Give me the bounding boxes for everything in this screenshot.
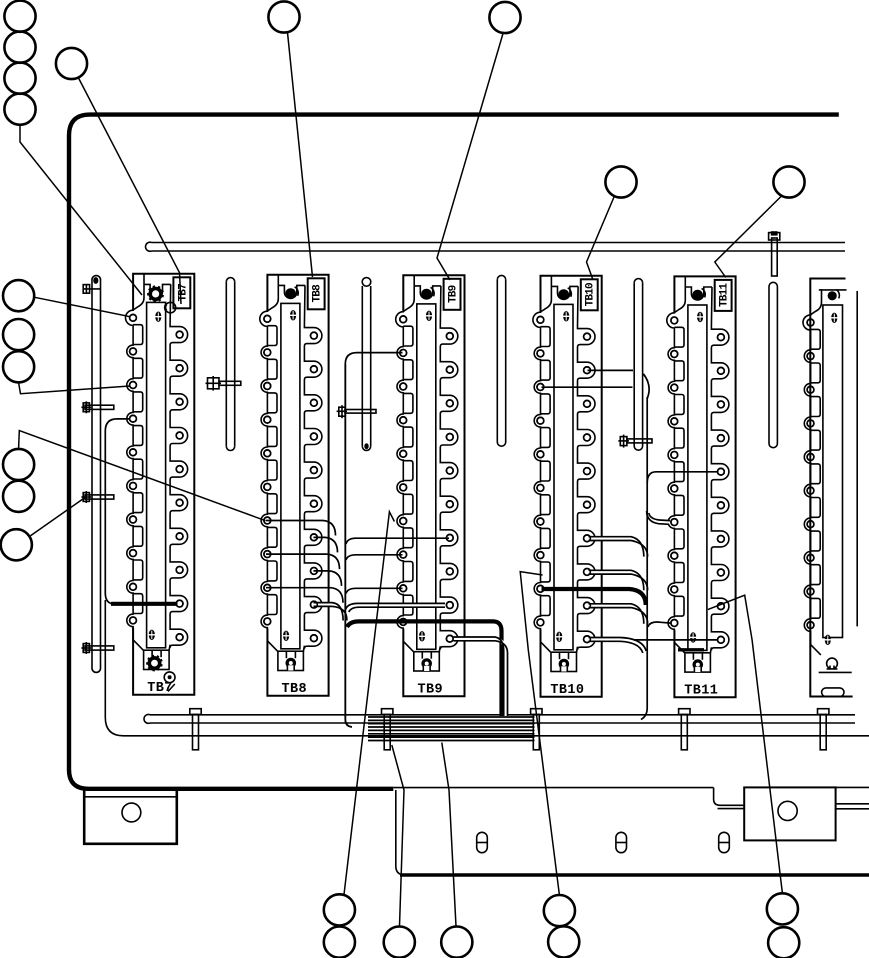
terminal block TB9 small screw on barrier top: [426, 311, 433, 321]
leader from balloon to TB7 left terminal 1: [34, 297, 130, 316]
partial block oval slot: [822, 688, 844, 697]
clamp bolt on upper rod: [769, 231, 780, 276]
terminal block TB10 terminal screw holes: [537, 316, 590, 642]
terminal block TB9 right scalloped contour: [439, 286, 458, 652]
terminal block TB10 strip top edge with screw notch: [550, 276, 552, 287]
panel outer edge (top and left, thick): [69, 115, 839, 789]
leader from bottom balloon pair to TB9 left terminal 7: [344, 512, 394, 895]
svg-text:TB8: TB8: [282, 682, 308, 697]
terminal block TB11 body plate: [674, 276, 735, 697]
leader from top balloon to TB8 label: [288, 33, 313, 278]
leader from balloon to TB11 label: [715, 196, 782, 278]
terminal block TB7 small bolt below top screw: [155, 312, 162, 322]
terminal block TB8 small screw on barrier bottom: [283, 631, 290, 641]
cable bundle: [368, 717, 535, 741]
leader from bottom right balloon pair to TB11 right terminal 9: [708, 595, 783, 893]
callout balloon 14: [3, 481, 34, 512]
terminal screw holes redrawn over wires: [130, 314, 814, 643]
svg-text:TB7: TB7: [177, 284, 189, 302]
terminal block TB9 mounting foot: [414, 652, 440, 671]
partial block inner top line: [819, 289, 847, 291]
terminal block TB11 foot screw: [693, 659, 704, 672]
callout balloon 23: [768, 927, 799, 958]
partial block right edge line: [856, 291, 858, 626]
wire from stem to TB9 right terminal 6: [346, 538, 449, 544]
terminal block TB8 label box (vertical): [308, 278, 325, 309]
partial terminal block at right edge: plate outline: [810, 279, 852, 697]
callout balloon 7: [489, 2, 520, 33]
callout balloon 6: [268, 1, 299, 32]
terminal block TB11 designation text: [684, 683, 718, 698]
twin wire from TB10 right 7 terminal into harness: [589, 537, 648, 557]
clamp bolt top on left rod: [83, 285, 100, 294]
terminal block TB10 body plate: [541, 276, 602, 697]
terminal block TB9 designation text: [417, 682, 443, 697]
terminal block TB10 small screw on barrier top: [563, 311, 570, 321]
terminal block TB7 mounting foot: [144, 650, 170, 669]
leader from balloon pair to TB8 left terminal 7: [19, 431, 266, 521]
leader from balloon pair to TB7 left terminal 3: [19, 383, 130, 394]
terminal block TB7 right scalloped contour: [169, 284, 188, 650]
terminal block TB11 right scalloped contour: [710, 287, 729, 653]
wire branch to TB11 right terminal 5: [647, 472, 718, 483]
svg-text:TB10: TB10: [550, 683, 584, 698]
terminal block TB8 small screw on barrier top: [290, 310, 297, 320]
callout balloon 8: [605, 166, 636, 197]
terminal block TB8 top mounting screw: [285, 287, 298, 299]
wire stem redrawn over junctions: [345, 364, 352, 727]
partial block small screws: [831, 313, 838, 323]
twin wire lines from TB10 right terminal 10: [589, 638, 647, 654]
wire from stem to TB9 left terminal 9: [346, 588, 403, 593]
vertical rod between TB10 and TB11: [634, 279, 642, 451]
terminal block TB11 small screw on barrier top: [697, 312, 704, 322]
thick wire from stem across TB9 turning down: [347, 621, 502, 716]
terminal block TB10 label box (vertical): [581, 279, 598, 310]
svg-text:TB8: TB8: [312, 284, 324, 303]
terminal block TB7 top mounting screw: [147, 286, 164, 303]
terminal block TB10 foot screw: [559, 659, 570, 672]
twin wire from TB10 right 8 terminal into harness: [589, 570, 648, 590]
terminal block TB8 designation text: [282, 682, 308, 697]
terminal block TB10 left scalloped contour: [533, 286, 552, 652]
partial block left terminal holes: [807, 319, 814, 628]
slotted hole 2: [616, 832, 627, 852]
leader from stacked balloons to TB7 plate: [20, 125, 142, 296]
terminal block TB7 label box (vertical): [173, 277, 190, 308]
terminal block TB8 centre barrier strip: [281, 303, 300, 648]
callout balloon 22: [767, 893, 798, 924]
partial block top screw: [828, 290, 840, 301]
terminal block TB11 mounting foot: [685, 653, 711, 672]
leader from bottom balloon pair to TB10 terminal strip: [520, 572, 559, 895]
cable clamp 1 on lower rail: [190, 709, 201, 750]
cable clamp 4 on lower rail: [679, 709, 690, 750]
terminal block TB10 mounting foot: [551, 652, 577, 671]
terminal block TB7 terminal screw holes: [130, 314, 183, 640]
svg-text:TB7: TB7: [147, 681, 173, 696]
clamp on rod between TB7 and TB8: [206, 376, 241, 391]
terminal block TB10 centre barrier strip: [554, 304, 573, 649]
wire from TB8 right 8 terminal into stem: [314, 571, 342, 586]
vertical harness wire right of TB10: [641, 397, 647, 720]
upper horizontal rod: [146, 242, 845, 251]
callout balloon 19: [441, 927, 472, 958]
leader stub at TB7 foot washer: [168, 684, 175, 692]
terminal block TB8 foot screw: [286, 658, 297, 671]
callout balloon 12: [3, 351, 34, 382]
wire stem from TB9 left terminal 2 down between TB8 and TB9: [345, 353, 402, 727]
svg-text:TB11: TB11: [719, 283, 731, 307]
vertical rod between TB9 and TB10: [497, 275, 505, 446]
wire from TB10 right terminal 2 to rod with crossover hop: [588, 370, 650, 398]
terminal block TB7 foot washer with screw: [164, 672, 175, 683]
terminal block TB9 body plate: [403, 275, 464, 696]
callout balloon 15: [1, 529, 32, 560]
shelf lines right of bracket: [836, 804, 869, 809]
right mounting bracket: [744, 787, 835, 840]
svg-text:TB10: TB10: [585, 283, 597, 306]
callout balloon 18: [384, 927, 415, 958]
lower horizontal rod: [144, 714, 855, 723]
terminal block TB11 small screw on barrier bottom: [690, 632, 697, 642]
terminal block TB11 label box (vertical): [715, 280, 732, 311]
partial block left scalloped contour: [803, 289, 821, 655]
clamp on rod between TB8 and TB9: [337, 405, 376, 418]
wire from TB8 left 7 terminal into stem: [266, 521, 336, 536]
terminal block TB8 right scalloped contour: [303, 285, 322, 651]
terminal block TB9 foot screw: [421, 658, 432, 671]
panel bottom edge (thin continuation): [393, 786, 869, 788]
vertical rod between TB7 and TB8: [226, 278, 234, 451]
cable clamp 5 on lower rail: [818, 709, 829, 750]
terminal block TB9 terminal screw holes: [400, 316, 453, 642]
terminal block TB7 designation text: [147, 681, 173, 696]
wire from stem to TB9 left terminal 8: [346, 555, 403, 560]
wire from TB8 left 9 terminal into stem: [266, 588, 343, 603]
vertical rod between TB11 and end block: [769, 282, 777, 447]
lower shelf step: [714, 788, 745, 809]
twin wire lines to TB11 left terminal 7: [647, 505, 670, 524]
leader from top balloon to TB7 label: [78, 77, 181, 304]
leader from bottom balloon to bundle end: [392, 745, 404, 926]
partial block centre barrier: [823, 305, 843, 638]
clamp bottom on left rod: [81, 642, 113, 654]
leader from top balloon to TB9 label: [437, 34, 503, 281]
clamp on rod between TB10 and TB11: [618, 435, 652, 448]
terminal block TB8 mounting foot: [278, 651, 304, 670]
terminal block TB7 foot screw: [146, 655, 162, 671]
callout balloon 11: [3, 319, 34, 350]
wire from TB8 right 9 terminal into stem: [314, 603, 347, 621]
lower slotted strip: [396, 790, 869, 875]
slotted hole 1: [477, 832, 488, 852]
callout balloon 2: [4, 32, 35, 63]
panel inner outline bottom: [105, 600, 869, 736]
terminal block TB9 strip top edge with screw notch: [413, 275, 415, 286]
clamp middle 1 on left rod: [81, 401, 113, 413]
svg-text:TB9: TB9: [448, 285, 460, 303]
terminal block TB7 small screw on barrier bottom: [148, 630, 155, 640]
terminal block TB11 terminal screw holes: [671, 317, 724, 643]
terminal block TB8 left scalloped contour: [260, 285, 279, 651]
terminal block TB9 left scalloped contour: [396, 286, 415, 652]
terminal block TB10 designation text: [550, 683, 584, 698]
wire from TB7 left terminal 4 down left side: [105, 419, 130, 604]
terminal block TB7 body plate: [133, 274, 194, 695]
terminal block TB8 terminal screw holes: [264, 315, 317, 641]
thick wire from TB10 left terminal 9 into harness: [542, 589, 646, 605]
callout balloon 4: [4, 94, 35, 125]
leader from bottom balloon to cable bundle: [442, 743, 456, 927]
twin wire lines to TB9 right terminal 9: [346, 603, 445, 612]
right bracket hole: [778, 801, 797, 820]
wire from TB10 left terminal 2 to rod: [542, 386, 633, 388]
svg-text:TB9: TB9: [417, 682, 443, 697]
svg-text:TB11: TB11: [684, 683, 718, 698]
callout balloon 16: [324, 894, 355, 925]
terminal block TB11 centre barrier strip: [688, 305, 707, 650]
thick wire across to TB11 right terminal 10: [634, 639, 719, 641]
vertical rod between TB8 and TB9: [362, 278, 371, 451]
wire from TB11 left terminal 10 into harness: [648, 622, 671, 627]
callout balloon 1: [4, 1, 35, 32]
thick wire into TB7 right terminal 9: [111, 602, 178, 606]
terminal block TB10 right scalloped contour: [577, 286, 596, 652]
callout balloon 3: [4, 63, 35, 94]
left mounting bracket: [84, 789, 177, 844]
terminal block TB10 top mounting screw: [558, 288, 571, 300]
callout balloon 17: [324, 927, 355, 958]
callout balloon 9: [773, 166, 804, 197]
terminal block TB8 strip top edge with screw notch: [277, 275, 279, 286]
twin wire from TB10 right 9 terminal into harness: [589, 604, 648, 624]
callout balloon 13: [3, 449, 34, 480]
cable clamp 3 on lower rail: [531, 709, 542, 750]
leader from balloon to TB10 label: [587, 197, 615, 279]
twin wire lines from TB9 right terminal 10: [454, 637, 508, 716]
callout balloon 10: [3, 280, 34, 311]
partial block foot and open screw: [819, 658, 852, 672]
callout balloon 5: [56, 48, 87, 79]
leader from balloon to clamp on left rod: [31, 498, 86, 536]
vertical rod left of TB7: [92, 276, 101, 673]
terminal block TB11 top mounting screw: [692, 288, 705, 300]
wire from TB8 right 7 terminal into stem: [314, 537, 338, 552]
terminal block TB7 top washer: [165, 302, 176, 313]
terminal block TB8 body plate: [267, 275, 328, 696]
dark bar at TB11 foot: [678, 648, 704, 651]
slotted hole 3: [719, 832, 730, 852]
terminal block TB7 centre barrier strip: [147, 302, 166, 647]
terminal block TB9 small screw on barrier bottom: [419, 631, 426, 641]
callout balloon 20: [544, 895, 575, 926]
terminal block TB9 top mounting screw: [421, 287, 434, 299]
cable clamp 2 on lower rail: [382, 709, 393, 750]
terminal block TB10 small screw on barrier bottom: [556, 632, 563, 642]
wire from TB8 left 8 terminal into stem: [266, 554, 340, 569]
terminal block TB7 strip top edge with screw notch: [143, 274, 145, 285]
left bracket hole: [122, 803, 141, 822]
terminal block TB11 left scalloped contour: [667, 287, 685, 653]
callout balloon 21: [548, 926, 579, 957]
terminal block TB7 left scalloped contour: [126, 284, 144, 650]
terminal block TB9 label box (vertical): [444, 279, 461, 310]
terminal block TB11 strip top edge with screw notch: [684, 276, 686, 287]
terminal block TB9 centre barrier strip: [417, 304, 436, 649]
clamp middle 2 on left rod: [81, 491, 113, 503]
